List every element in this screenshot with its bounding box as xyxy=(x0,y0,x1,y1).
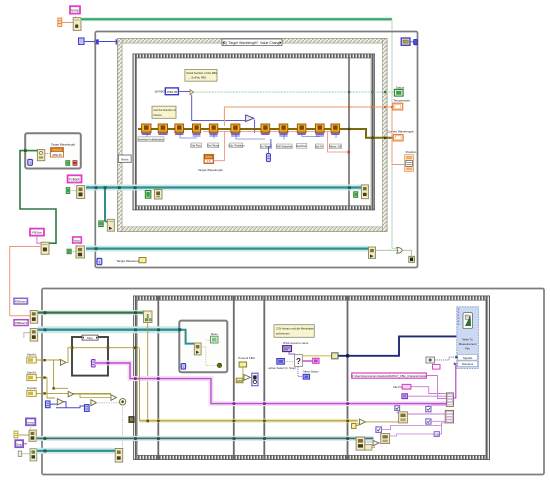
wires olive controls to network xyxy=(36,359,111,398)
svg-text:Reso: Reso xyxy=(211,332,218,336)
VI label Mess. Off xyxy=(329,144,341,149)
check box node 2 xyxy=(426,406,431,411)
blue I32 text strips under icons xyxy=(142,133,340,136)
wire FzBack label to icon xyxy=(74,183,76,186)
wire orange dashed (broken) xyxy=(45,153,51,155)
subVI icon temp-to-string xyxy=(356,437,365,450)
svg-text:StartAL: StartAL xyxy=(27,352,37,356)
junctions green row1 xyxy=(44,311,47,314)
wire dashed enum to question xyxy=(284,360,294,362)
VI label Get Pos. 2 xyxy=(296,144,307,149)
sequence 2 frame dividers xyxy=(157,296,159,460)
indicator Temperature xyxy=(393,99,411,110)
while loop 2 border xyxy=(42,289,544,475)
wire dark teal long (row temp) xyxy=(36,436,373,441)
wire from round node down to bottom icon xyxy=(122,405,124,449)
subVI icon (mini loop) xyxy=(37,150,44,161)
VI label Get Te. xyxy=(315,144,324,149)
control StartAL xyxy=(27,352,37,363)
svg-text:blue: blue xyxy=(87,336,93,340)
junctions olive left xyxy=(43,359,45,361)
wire gray into feeder2 xyxy=(24,333,30,338)
wire navy conversion to file xyxy=(338,336,456,355)
wire check1 down to icon xyxy=(397,410,398,413)
control orange array (mini loop) xyxy=(51,148,64,157)
svg-text:Current Wavelength: Current Wavelength xyxy=(387,129,414,133)
wire icon to bundle2 xyxy=(407,413,445,415)
boolean numeric const blue 1 xyxy=(46,401,51,408)
label Target Wavelength (bottom of loop1) xyxy=(116,258,146,263)
junction blue on loop right border xyxy=(414,39,418,44)
wire temp label to icon xyxy=(75,14,77,18)
case structure (blue) xyxy=(72,337,108,376)
wire gate A to case xyxy=(66,348,72,363)
wire olive timeout down xyxy=(242,367,244,377)
wire gray const to icon xyxy=(22,453,30,455)
OR gate xyxy=(397,247,403,253)
wire check2 to bundle1 xyxy=(428,405,446,406)
svg-text:CSV stream und die Messdaten: CSV stream und die Messdaten xyxy=(276,327,314,331)
boolean constant (green) in loop bottom xyxy=(99,221,103,227)
Reinit local variable xyxy=(118,155,131,162)
svg-text:Temperature: Temperature xyxy=(393,99,410,103)
wire green const to icon xyxy=(70,190,77,192)
svg-text:Write To: Write To xyxy=(462,338,473,342)
wire orange temp xyxy=(62,21,73,23)
subVI icon FzBack xyxy=(77,186,85,199)
svg-text:StartSL: StartSL xyxy=(27,370,37,374)
wire icon B to GB row xyxy=(390,434,435,436)
svg-text:Serial Number of the FBG: Serial Number of the FBG xyxy=(186,71,217,75)
wire magenta from case to long run xyxy=(95,363,446,404)
svg-text:Get the Number of: Get the Number of xyxy=(154,108,176,112)
wire timeout icon to border xyxy=(410,41,414,43)
while loop 1 border xyxy=(95,32,417,268)
stop terminal red (mini loop) xyxy=(73,161,77,166)
wire olive through case xyxy=(73,347,107,349)
pink terminal box xyxy=(313,358,319,363)
wire olive long bus (bottom) xyxy=(140,419,358,423)
indicator Position (array table) xyxy=(405,150,417,171)
boolean const on teal wire (in sequence) xyxy=(145,191,151,199)
wire blue from arrow down xyxy=(254,120,256,134)
subVI icon temp sender xyxy=(29,430,36,441)
wire magenta question to pink box xyxy=(302,360,312,362)
subVI icon stop xyxy=(76,246,84,258)
wire teal branch down inside loop xyxy=(105,189,107,222)
svg-text:FBSelect: FBSelect xyxy=(15,300,27,304)
svg-text:Mess. Off: Mess. Off xyxy=(329,145,341,149)
olive junctions on case borders xyxy=(71,346,74,349)
orange terminal temp xyxy=(58,18,62,26)
numeric constant 1550.05 xyxy=(165,88,178,95)
subVI icon format-into-string xyxy=(399,412,408,423)
wire salmon target wavelength xyxy=(203,132,349,161)
wire yellow question to conversion xyxy=(302,355,331,357)
wire olive triangle to icon xyxy=(356,422,399,426)
svg-text:aufnehmen: aufnehmen xyxy=(276,331,290,335)
wire const to stop icon xyxy=(71,250,76,252)
flat sequence border (film strip) xyxy=(133,54,375,210)
mini while loop border xyxy=(25,133,81,168)
triangle gate olive (frame4) xyxy=(359,419,365,425)
svg-text:Position: Position xyxy=(406,150,417,154)
VISA constant xyxy=(283,346,292,352)
svg-text:Interface Initialization: Interface Initialization xyxy=(138,138,165,142)
svg-text:Mess Status: Mess Status xyxy=(303,370,319,374)
wire dynamic data to signals xyxy=(435,357,456,360)
arrow into filename xyxy=(454,362,457,365)
stop terminal (loop condition) xyxy=(409,256,415,262)
bundle node stack 2 xyxy=(445,410,453,423)
subVI icon feeder 2 xyxy=(30,329,38,342)
wires blue cluster xyxy=(50,402,85,408)
wire long green boolean (top) xyxy=(81,19,397,248)
wire blue constant to node xyxy=(178,90,190,92)
svg-text:1550.05: 1550.05 xyxy=(166,90,177,94)
wire blue enum up xyxy=(268,139,271,154)
node on sequence border xyxy=(129,417,134,423)
indicator Reso (loop3) xyxy=(211,332,219,343)
comment: serial number of the FBG xyxy=(185,70,217,82)
purple path box xyxy=(402,394,408,399)
frame 3a: comment CSV stream xyxy=(274,325,314,338)
svg-text:[0] "Target Wavelength": Value: [0] "Target Wavelength": Value Change xyxy=(223,41,281,45)
junctions magenta xyxy=(107,362,110,365)
frame 2a: Timeout FBG xyxy=(238,356,256,367)
junctions on orange wire xyxy=(348,106,350,108)
wire green inside mini loop xyxy=(26,150,37,152)
array constant green FzBack xyxy=(66,188,70,194)
wire dashed gray loop3 xyxy=(201,340,218,365)
control label FzBack xyxy=(68,175,82,182)
check box node 1 xyxy=(395,406,400,411)
VI icon row (11 orange driver VIs) xyxy=(142,124,340,133)
wire olive terminal to icon xyxy=(18,434,29,436)
wire FBStat label to icon xyxy=(37,236,42,244)
iteration terminal i (loop1) xyxy=(97,258,102,264)
subVI icon FBStat xyxy=(41,242,49,254)
conversion node xyxy=(190,90,194,95)
subVI icon number-to-fract-string xyxy=(381,434,390,444)
wire GB to bundle2 xyxy=(439,423,445,434)
svg-text:Get Pos.: Get Pos. xyxy=(296,144,307,148)
subVI icon bottom feeder xyxy=(30,449,37,461)
arrow into signals xyxy=(455,356,458,359)
wire thin to OR gate xyxy=(376,249,397,251)
purple element inside case xyxy=(91,360,95,367)
condition terminal loop3 xyxy=(217,363,221,367)
junction olive on sequence border xyxy=(134,346,137,349)
wire path box to bundle xyxy=(407,395,446,397)
gate triangle B xyxy=(68,391,73,396)
triangle gate teal (frame4) xyxy=(373,440,379,445)
small beige node D xyxy=(365,445,372,451)
VI label GW Switches xyxy=(276,144,293,149)
control label temp (top-left) xyxy=(70,6,80,13)
wire blue from node down to icon bus xyxy=(192,95,246,121)
wire string const to bundle xyxy=(426,376,446,399)
wire orange to temperature xyxy=(224,107,394,126)
svg-text:File: File xyxy=(465,346,470,350)
GB string box xyxy=(434,432,439,437)
blue for-loop arrow xyxy=(246,115,254,122)
svg-text:1000: 1000 xyxy=(237,379,243,383)
label File Paths xyxy=(393,384,411,389)
junction red on divider xyxy=(348,151,351,154)
wire temp label down xyxy=(30,425,32,430)
wire bundle output to filename xyxy=(454,364,457,398)
wire orange to position xyxy=(392,108,405,165)
VI label Go Steps xyxy=(260,144,272,149)
control label stop xyxy=(73,237,82,243)
subVI icon temp-write xyxy=(73,18,81,31)
wire check4 toward bundle2 xyxy=(381,423,441,430)
boolean constant T (mini loop) xyxy=(66,161,70,166)
wire green mini loop to FBStat icon xyxy=(20,151,56,244)
wire olive case to sequence xyxy=(108,347,140,349)
svg-text:Cub. Position: Cub. Position xyxy=(228,144,245,148)
svg-text:temp: temp xyxy=(71,9,79,13)
svg-text:Device: Device xyxy=(154,113,163,117)
gate triangle A (to case) xyxy=(61,360,67,366)
wire to wait xyxy=(250,376,252,378)
wire OR to stop terminal xyxy=(402,250,411,256)
svg-text:Get Te.: Get Te. xyxy=(315,145,324,149)
junctions on olive bus xyxy=(348,128,350,130)
check box node 4 xyxy=(376,427,382,433)
junction teal stop on loop border xyxy=(95,247,98,250)
junction teal bottom xyxy=(44,449,47,452)
svg-text:Get Pos.: Get Pos. xyxy=(191,144,202,148)
VI label Get Pos. xyxy=(191,143,202,148)
convert to dynamic data node xyxy=(426,357,435,363)
while loop 3 (inner) xyxy=(179,321,227,373)
wire check3 to bundle2 xyxy=(431,420,445,422)
junction blue on loop border xyxy=(95,40,99,45)
svg-text:Filename: Filename xyxy=(462,362,474,366)
subVI icon feeder 1 xyxy=(30,311,38,324)
numeric constant (timeout) xyxy=(79,38,84,44)
svg-text:active Select (1: Stop): active Select (1: Stop) xyxy=(269,366,296,370)
wire teal inside loop3 xyxy=(181,330,194,344)
wire olive DBL bus through icon row xyxy=(138,129,393,138)
junction on mini loop border xyxy=(24,149,27,152)
junction teal on loop3 border xyxy=(178,328,181,331)
control label temp (bottom-left) xyxy=(26,418,35,425)
svg-text:Timeout FBG: Timeout FBG xyxy=(238,356,256,360)
svg-text:Target Wavelength: Target Wavelength xyxy=(51,143,75,147)
format string constant xyxy=(433,365,441,370)
control Impulse xyxy=(27,386,38,396)
wire blue question down to mess status xyxy=(298,367,303,377)
control label Stop? (purple) xyxy=(15,440,23,447)
enum const active Select xyxy=(277,359,284,365)
VI label Cub. Position xyxy=(228,143,245,148)
svg-text:stop: stop xyxy=(74,239,80,243)
enum constant (blue) xyxy=(266,154,270,162)
event timeout icon (top right of loop) xyxy=(401,38,410,45)
subVI icon frame2 right (on teal wire) xyxy=(361,185,368,199)
wire blue timeout xyxy=(84,41,118,43)
numeric const below triangle xyxy=(352,424,357,429)
question node xyxy=(295,355,303,367)
Write To Measurement File express VI xyxy=(457,307,479,369)
wires around temp-to-string xyxy=(365,440,381,447)
wire olive from $ icon down to long bus xyxy=(147,323,149,421)
blue interconnects under icon row xyxy=(147,133,336,140)
iteration terminal i (loop3) xyxy=(181,364,185,370)
terminal Target Wavelength (orange cluster) xyxy=(204,154,214,163)
wire green dashed to status xyxy=(194,91,395,93)
wire teal stop (loop bottom) xyxy=(86,246,369,252)
svg-text:VISA resource name: VISA resource name xyxy=(283,341,309,345)
svg-text:temp: temp xyxy=(27,421,34,425)
svg-text:GB: GB xyxy=(435,433,439,437)
svg-text:?: ? xyxy=(296,357,301,366)
wire VISA to question node xyxy=(289,352,295,356)
blue indicator Mess Status xyxy=(303,374,309,379)
junctions dark teal xyxy=(44,437,47,440)
wire stop label to icon xyxy=(76,243,78,246)
multiply triangle xyxy=(244,375,250,381)
wire teal long (row 2) xyxy=(38,326,184,333)
VI label Get Temp xyxy=(207,143,220,148)
junctions on teal wire xyxy=(95,186,98,189)
wire purple Stop to right xyxy=(23,443,27,445)
event structure border (hatched) xyxy=(118,39,388,232)
svg-text:Signals: Signals xyxy=(463,356,473,360)
svg-text:Measurement: Measurement xyxy=(459,342,477,346)
wire teal bottom row xyxy=(37,448,115,454)
svg-text:Status: Status xyxy=(396,85,405,89)
svg-text:Target Wavelength: Target Wavelength xyxy=(198,168,223,172)
svg-text:FBStat: FBStat xyxy=(32,231,42,235)
junctions olive bus xyxy=(147,420,150,423)
flat sequence 2 border (film strip) xyxy=(134,296,490,460)
control label FBSelect xyxy=(14,298,28,304)
boolean const near icon xyxy=(354,192,358,198)
indicator Current Wavelength xyxy=(387,129,414,141)
wire olive drop from case area xyxy=(139,349,141,421)
svg-text:FBBoard: FBBoard xyxy=(15,321,27,325)
numeric const 1000 xyxy=(236,378,243,383)
wire teal FzBack main (into sequence) xyxy=(86,185,361,191)
gate triangle D (blue) xyxy=(57,399,63,405)
junctions teal row2 xyxy=(44,328,47,331)
string path constant xyxy=(351,373,427,378)
wire orange FBStat to bottom icons xyxy=(10,247,41,316)
numeric const blue 2 xyxy=(85,405,90,412)
event case label xyxy=(222,39,282,46)
control label FBBoard xyxy=(14,320,28,326)
round node (select) xyxy=(120,399,126,405)
wire dashed gray to round node xyxy=(96,402,120,404)
subVI icon (loop bottom-left) xyxy=(107,219,114,231)
junctions on green dashed wire xyxy=(348,91,350,93)
subVI icon on teal bottom xyxy=(115,449,123,463)
bundle node stack 1 xyxy=(446,393,453,407)
wire File Paths to bundle xyxy=(411,387,447,394)
check box node 3 xyxy=(426,419,431,424)
subVI icon $ (frame 1a) xyxy=(144,311,153,323)
gate triangle E xyxy=(91,400,97,406)
indicator Status xyxy=(394,85,404,96)
svg-text:Reinit: Reinit xyxy=(121,157,128,161)
case selector label xyxy=(82,335,98,340)
sequence frame divider xyxy=(348,54,350,210)
junction blue on event border xyxy=(116,40,120,45)
iteration terminal i (mini loop) xyxy=(28,159,33,165)
boolean const stop xyxy=(67,249,71,254)
gate triangle C xyxy=(111,395,117,401)
svg-text:FzBack: FzBack xyxy=(69,178,80,182)
svg-text:18-FBG: 18-FBG xyxy=(154,90,165,94)
svg-text:C:\Users\hammer\am.Desktop\202: C:\Users\hammer\am.Desktop\2020617_FBG_C… xyxy=(351,374,427,378)
control label FBStat xyxy=(30,229,44,236)
svg-text:→ SmFau FBG: → SmFau FBG xyxy=(188,76,206,80)
gray const bottom xyxy=(18,451,22,456)
VI label Interface Initialization xyxy=(138,137,165,142)
svg-text:GW Switches: GW Switches xyxy=(276,145,293,149)
wire dark green long (row 1) xyxy=(38,310,144,315)
subVI icon near loop bottom right xyxy=(369,247,376,258)
yellow terminal for temp xyxy=(14,431,18,438)
control StartSL xyxy=(27,370,37,380)
wire olive B to C xyxy=(74,394,111,397)
comment: get the number of device xyxy=(152,106,176,118)
svg-text:1550.05: 1550.05 xyxy=(52,153,62,157)
wait (ms) icon purple border xyxy=(252,373,258,386)
svg-text:Stop: Stop xyxy=(16,442,22,446)
junction navy on divider xyxy=(346,354,349,357)
svg-text:Target Wavelength: Target Wavelength xyxy=(116,259,142,263)
svg-text:Get Temp: Get Temp xyxy=(207,144,220,148)
conversion node (to I32) xyxy=(332,353,338,359)
svg-text:Impulse: Impulse xyxy=(27,386,38,390)
subVI icon read (loop3) xyxy=(194,343,201,355)
subVI icon on teal wire (in sequence) xyxy=(154,190,162,200)
